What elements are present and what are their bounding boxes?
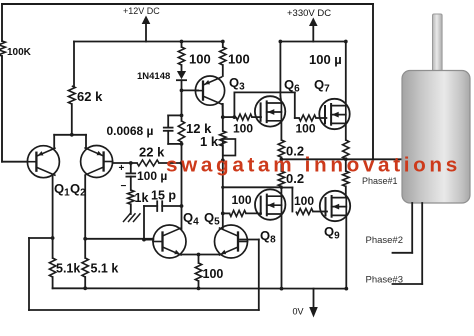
wire Q8 gate lead xyxy=(223,212,261,214)
wire 100 emitter bottom lead xyxy=(198,281,200,288)
svg-text:100: 100 xyxy=(232,193,252,207)
label Phase#3 xyxy=(366,275,404,286)
resistor R 100 (Q9 gate) xyxy=(296,209,313,215)
wire 1k to ground xyxy=(130,204,132,214)
svg-text:100: 100 xyxy=(233,122,253,136)
wire biasline to Q4 collector xyxy=(181,206,183,229)
mosfet Q8 xyxy=(255,189,285,219)
svg-text:62 k: 62 k xyxy=(77,89,103,104)
wire biasline to 12k xyxy=(181,90,183,121)
mosfet Q6 xyxy=(255,96,285,126)
mosfet Q7 xyxy=(319,99,349,129)
svg-text:1N4148: 1N4148 xyxy=(137,71,170,82)
wire Q1 emitter down xyxy=(52,176,54,238)
wire outer feedback left vertical xyxy=(28,238,30,310)
label 100 (Q7 gate) xyxy=(296,122,316,136)
svg-text:100 µ: 100 µ xyxy=(309,52,342,67)
wire Q5 collector line xyxy=(222,160,224,229)
node rail right end xyxy=(221,40,225,44)
wire right feedback down-run xyxy=(372,4,374,159)
label Q1Q2 xyxy=(54,181,86,199)
wire 0.0068u bottom lead xyxy=(168,131,181,144)
wire 100 emitter top lead xyxy=(198,255,200,264)
wire +12V rail xyxy=(74,41,223,43)
resistor R 62k xyxy=(68,86,75,104)
label Q3 xyxy=(229,75,245,93)
resistor R 100 (emitter) xyxy=(195,263,201,281)
wire diode to Q3 base node xyxy=(181,80,183,90)
capacitor C 100u plates xyxy=(126,173,135,176)
capacitor C 0.0068u plates xyxy=(164,128,173,131)
wire 22k to bias line xyxy=(159,162,182,164)
label 100 u filter xyxy=(309,52,342,67)
node 12k top junction xyxy=(180,114,184,118)
resistor R 100 (Q8 gate) xyxy=(230,210,247,216)
wire Q3 output to gate node xyxy=(223,116,235,118)
node Q5coll-Q8drain tie left xyxy=(221,186,224,189)
svg-text:100: 100 xyxy=(294,194,314,208)
label + polarity xyxy=(119,163,125,174)
transistor Q5 xyxy=(215,225,248,258)
svg-text:Phase#2: Phase#2 xyxy=(366,235,404,246)
wire Q7 gate lead xyxy=(295,117,327,119)
svg-text:0.0068 µ: 0.0068 µ xyxy=(107,124,154,138)
transistor Q1 xyxy=(27,146,59,178)
label 100 (Q8 gate) xyxy=(232,193,252,207)
node gate feed junction xyxy=(233,115,237,119)
wire Q5 base riser xyxy=(240,240,259,311)
svg-text:1k: 1k xyxy=(135,191,149,205)
label 1N4148 xyxy=(137,71,170,82)
wire Q4-Q5 emitter tie xyxy=(182,254,219,256)
watermark swagatam innovations xyxy=(166,154,461,177)
wire phase3 lead xyxy=(393,203,423,284)
transistor Q4 xyxy=(153,225,186,258)
label 100 u xyxy=(137,169,167,183)
node 15p right junction xyxy=(180,204,184,208)
wire phase2 lead xyxy=(393,203,413,253)
wire +330V rail xyxy=(280,41,345,43)
wire Q2 base to 22k xyxy=(113,162,137,164)
resistor R 22k xyxy=(137,160,159,166)
label 0V xyxy=(293,307,304,317)
wire Q7 source to 0.2 xyxy=(345,123,347,140)
wire Q7 drain xyxy=(345,42,347,106)
wire 100u cap top lead xyxy=(130,163,132,173)
wire Q2 emitter down xyxy=(84,176,86,239)
node 62k-collector junction xyxy=(70,133,74,137)
node 1k bottom junction xyxy=(221,158,225,162)
wire 62k to Q1Q2 collectors xyxy=(71,104,73,135)
resistor R 0.2 (Q9 drain) xyxy=(343,171,349,186)
svg-text:Phase#3: Phase#3 xyxy=(366,275,404,286)
wire Q1 base from left rail xyxy=(2,161,28,163)
svg-text:100: 100 xyxy=(228,52,250,67)
svg-text:swagatam innovations: swagatam innovations xyxy=(166,154,461,177)
svg-text:−: − xyxy=(121,181,127,192)
svg-text:0V: 0V xyxy=(293,307,304,317)
wire collector-drain tie xyxy=(223,186,282,188)
label Q9 xyxy=(324,224,340,242)
wire 0.2 to Q9 drain xyxy=(345,186,347,197)
motor body xyxy=(402,71,470,204)
wire gate feed riser xyxy=(234,92,294,118)
resistor R 100 (Q6 gate) xyxy=(236,114,252,120)
node 15p-base junction xyxy=(142,238,146,242)
wire Q6 gate lead xyxy=(252,116,261,118)
mosfet Q9 xyxy=(320,191,350,221)
wire 15p right lead xyxy=(162,205,181,207)
wire Q1 emitter stub left xyxy=(29,237,53,239)
label 1 k xyxy=(200,134,219,149)
label Phase#1 xyxy=(362,176,398,186)
wire Q6 source to 0.2 xyxy=(280,121,282,140)
node Q8 drain tie junction xyxy=(280,186,283,189)
svg-text:+330V DC: +330V DC xyxy=(287,8,331,19)
svg-text:5.1k: 5.1k xyxy=(56,262,80,276)
label 62 k xyxy=(77,89,103,104)
node rail-biasline junction xyxy=(180,40,184,44)
wire phase1 output xyxy=(281,158,404,160)
node 100-groundbus junction xyxy=(197,287,201,291)
capacitor C 15p plates xyxy=(157,201,162,211)
resistor R 0.2 (Q6 source) xyxy=(278,140,284,157)
node Q9 source junction xyxy=(344,287,348,291)
motor shaft xyxy=(433,14,443,72)
wire 1k top lead xyxy=(222,117,224,131)
label 5.1 k xyxy=(91,262,119,276)
wire 5.1k #2 bottom lead xyxy=(84,277,86,288)
wire Q6 drain xyxy=(280,42,281,104)
wire 15p left lead xyxy=(144,206,157,240)
node 330 rail right end xyxy=(344,40,348,44)
wire 12k to 22k node xyxy=(181,142,183,163)
label +330V DC xyxy=(287,8,331,19)
svg-text:5.1 k: 5.1 k xyxy=(91,262,119,276)
wire left feedback down-run (top part) xyxy=(1,4,3,41)
svg-text:100: 100 xyxy=(296,122,316,136)
node Q3 output junction xyxy=(221,115,225,119)
svg-text:100: 100 xyxy=(189,52,211,67)
node phase1 left junction xyxy=(280,157,284,161)
node 12k bottom junction xyxy=(180,142,184,146)
label 0.0068 u xyxy=(107,124,154,138)
label 15 p xyxy=(151,189,176,203)
svg-text:100: 100 xyxy=(203,267,224,281)
label Q8 xyxy=(260,228,276,246)
label 12 k xyxy=(186,121,212,136)
node Q8 source junction xyxy=(280,287,284,291)
wire rail to 100ohm xyxy=(181,42,183,48)
label 0.2 (upper left) xyxy=(286,144,304,159)
resistor R 1k (Q3 load) xyxy=(220,131,226,146)
wire 0.0068u top lead xyxy=(168,115,181,127)
node Q1 emitter junction xyxy=(51,236,55,240)
wire Q9 gate feed xyxy=(281,188,292,212)
resistor R 100K xyxy=(0,41,5,56)
node 22k-biasline junction xyxy=(180,161,184,165)
label Q7 xyxy=(314,77,330,95)
label 0.2 (lower left) xyxy=(286,171,304,186)
svg-text:+12V DC: +12V DC xyxy=(123,6,160,16)
label - polarity xyxy=(121,181,127,192)
wire Q3 base lead xyxy=(182,89,199,91)
label 5.1k xyxy=(56,262,80,276)
label +12V DC xyxy=(123,6,160,16)
label 100K xyxy=(7,47,32,58)
resistor R 0.2 (Q7 source) xyxy=(343,140,349,159)
wire 0.2 to phase node right xyxy=(345,158,347,160)
wire 5.1k #2 top lead xyxy=(84,239,86,258)
label 100 (Q9 gate) xyxy=(294,194,314,208)
resistor R 12k xyxy=(178,121,184,142)
wire top feedback rail xyxy=(2,3,373,5)
wire 1k to lower node xyxy=(222,146,224,160)
wire Q1Q2 collector tie xyxy=(54,134,86,136)
node Q3 base junction xyxy=(180,89,184,93)
label 1k xyxy=(135,191,149,205)
power arrow +330V xyxy=(309,18,318,42)
label 100 (Q3 collector) xyxy=(228,52,250,67)
label 100 (Q6 gate) xyxy=(233,122,253,136)
node 100u branch tap xyxy=(129,161,133,165)
wire 100u to 1k xyxy=(130,177,132,190)
svg-text:100 µ: 100 µ xyxy=(137,169,167,183)
label 100 (Q3 bias) xyxy=(189,52,211,67)
power arrow +12V xyxy=(142,16,151,42)
wire emitter ground bus xyxy=(53,287,346,289)
resistor R 100 (Q7 gate) xyxy=(299,115,316,121)
wire Q2 collector stub xyxy=(85,135,87,148)
svg-text:1 k: 1 k xyxy=(200,134,219,149)
wire Q2 emitter to Q4 base xyxy=(85,238,153,241)
label 100 (emitter) xyxy=(203,267,224,281)
power arrow 0V xyxy=(309,289,318,318)
wire outer feedback bottom xyxy=(29,309,259,311)
node Q2 emitter junction xyxy=(83,237,87,241)
wire Q3 emitter-line down xyxy=(222,104,224,117)
label Q6 xyxy=(284,77,300,95)
svg-text:15 p: 15 p xyxy=(151,189,176,203)
svg-text:+: + xyxy=(119,163,125,174)
label Phase#2 xyxy=(366,235,404,246)
node gate resistor junction (Q8) xyxy=(221,212,225,216)
resistor R 100 (Q3 collector) xyxy=(220,47,226,65)
wire 0.2 to phase node xyxy=(280,157,282,159)
wire left feedback down-run (bottom part) xyxy=(1,56,3,162)
node emitter-100 junction xyxy=(197,253,201,257)
svg-text:100K: 100K xyxy=(7,47,32,58)
wire 0.2 to Q8 drain xyxy=(280,186,282,196)
label Q4 Q5 xyxy=(183,210,220,228)
label 22 k xyxy=(139,145,165,160)
wire Q9 source down xyxy=(345,215,348,288)
wire phase node to 0.2 lower xyxy=(280,159,282,171)
node 330 rail left end xyxy=(279,40,283,44)
diode D 1N4148 xyxy=(177,71,186,80)
svg-text:Phase#1: Phase#1 xyxy=(362,176,398,186)
resistor R 5.1k #1 xyxy=(49,258,55,277)
resistor R 5.1k #2 xyxy=(82,258,88,277)
wire 5.1k #1 bottom lead xyxy=(52,277,54,288)
node phase1 right junction xyxy=(344,157,348,161)
transistor Q3 xyxy=(195,76,224,105)
wire Q9 gate lead xyxy=(313,211,327,213)
wire 62k drop from rail xyxy=(73,42,75,87)
transistor Q2 xyxy=(81,146,113,178)
wire Q1 collector stub xyxy=(53,135,55,148)
resistor R 100 (Q3 bias) xyxy=(178,47,184,65)
wire 100 to Q3 collector xyxy=(222,42,224,77)
box trimmer element xyxy=(223,139,236,156)
wire 100ohm to diode xyxy=(181,65,183,71)
wire 5.1k #1 top lead xyxy=(52,238,54,258)
node 5.1k #2 ground junction xyxy=(83,286,87,290)
resistor R 1k vertical xyxy=(128,190,134,204)
svg-text:22 k: 22 k xyxy=(139,145,165,160)
resistor R 0.2 (Q8 drain) xyxy=(278,171,284,186)
wire Q8 source down xyxy=(281,214,283,289)
ground symbol xyxy=(124,214,141,222)
wire phase node to Q9 0.2 xyxy=(345,159,347,171)
wire biasline to 15p node xyxy=(181,163,183,206)
